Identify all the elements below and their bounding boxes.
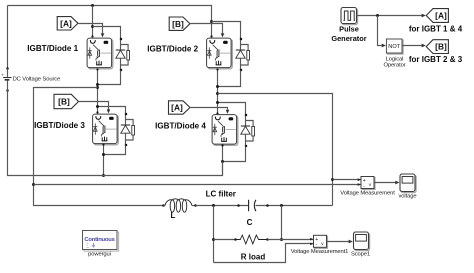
wire: jog from right leg to diode D4 top [218,103,246,115]
svg-text:voltage: voltage [399,194,417,200]
DC Voltage Source battery [1,67,60,92]
svg-text:[B]: [B] [435,42,447,52]
wire: IGBT4 emitter down to bottom rail [222,145,224,176]
svg-text:for IGBT 1 & 4: for IGBT 1 & 4 [409,25,463,34]
From tag [B] for IGBT2 gate [169,17,190,30]
node: junction on top rail above IGBT1 [91,4,94,7]
svg-text:[A]: [A] [60,18,72,28]
wire: NOT output to Goto B [403,45,422,47]
node: junction on IGBT1 collector [91,25,94,28]
svg-text:Pulse: Pulse [339,25,359,34]
wire: jog from IGBT2 collector to diode D2 top [212,22,241,39]
scope block voltage [400,174,416,193]
port dot: IGBT1 C port [91,35,93,37]
svg-text:IGBT/Diode 3: IGBT/Diode 3 [34,121,85,130]
port dot: IGBT2 C port [210,35,212,37]
diode D1 with snubber [116,38,130,72]
wire: diode D1 bottom jog to emitter line [98,71,121,85]
From tag [A] for IGBT1 gate [57,17,78,30]
arrowhead into VM minus [358,183,361,186]
wire: branch down to NOT operator [378,16,382,46]
wire: node A going left and down to LC filter [34,88,164,206]
node: junction main line to R branch left [212,204,215,207]
svg-text:+: + [1,73,4,78]
wire: [A] to IGBT4 gate [191,108,228,110]
diode D3 with snubber [121,113,135,147]
transistor block IGBT/Diode 3 [93,114,119,145]
node: junction R branch left [212,238,215,241]
wire: IGBT1 emitter down to IGBT3 collector [97,69,99,113]
Voltage Measurement1 block [314,235,328,248]
node: junction main line to R branch right [280,204,283,207]
node A junction on left leg [96,86,99,89]
scope block Scope1 [354,232,370,251]
wire: R load bottom loop to VM1 [214,244,314,263]
wire: bottom DC rail from battery to IGBT4 emitter [8,81,223,176]
svg-text:R load: R load [241,253,266,262]
svg-text:[B]: [B] [172,19,184,29]
wire: [A] to IGBT1 gate [79,24,103,34]
svg-text:Voltage Measurement1: Voltage Measurement1 [291,249,349,255]
svg-text:IGBT/Diode 4: IGBT/Diode 4 [155,121,206,130]
svg-text:IGBT/Diode 2: IGBT/Diode 2 [147,45,198,54]
node B junction on right leg [216,92,219,95]
diode D4 with snubber [241,114,255,148]
wire: left rail of R load branch [213,206,215,263]
node: junction node B wire to VM plus input [331,178,334,181]
arrowhead into VM1 bottom [310,243,313,246]
svg-text:LC filter: LC filter [206,189,236,198]
wire: VM to voltage scope [375,182,396,184]
svg-text:[A]: [A] [435,11,447,21]
resistor R load [214,235,314,261]
diode D2 with snubber [236,38,250,72]
capacitor C [237,200,269,227]
wire: IGBT3 emitter down to bottom rail [103,145,105,176]
Goto tag [A] [426,9,448,23]
wire: [B] to IGBT2 gate [191,24,223,34]
Pulse Generator block [331,8,366,43]
wire: diode D4 bottom jog to emitter [223,147,246,162]
wire: [B] to IGBT3 gate [79,102,109,110]
Goto tag [B] [426,40,448,54]
wire: node A measurement line to VM minus input [34,184,361,186]
node: junction on pulse generator output [376,14,379,17]
wire: node B going right and down to voltage measurement [218,94,333,206]
wire: main LC filter line [196,205,249,207]
wire: VM1 to Scope1 [327,241,349,243]
Voltage Measurement block [361,177,375,190]
svg-text:IGBT/Diode 1: IGBT/Diode 1 [27,44,78,53]
wire: jog from IGBT1 collector to diode D1 top [93,27,121,39]
svg-text:Voltage Measurement: Voltage Measurement [340,190,395,196]
wire: diode D3 bottom jog to emitter [104,146,126,155]
node: junction R branch right [280,238,283,241]
From tag [A] for IGBT4 gate [169,101,191,114]
svg-text:[A]: [A] [171,103,183,113]
wire: node B wire to VM plus input [333,179,361,181]
inductor L [162,199,197,220]
transistor block IGBT/Diode 2 [207,38,233,69]
wire: top DC rail from left corner to IGBT2 collector drop [8,6,212,37]
svg-text:DC Voltage Source: DC Voltage Source [13,77,61,83]
wire: jog from left leg to diode D3 top [98,107,126,114]
svg-text:L: L [171,211,176,220]
arrowhead into VM1 top [310,238,313,241]
wire: left DC rail down to battery [7,6,9,69]
logical operator NOT block [383,39,405,69]
node: junction node A to voltage measurement line [32,183,35,186]
svg-text:Generator: Generator [331,34,366,43]
wire: IGBT2 emitter down to IGBT4 collector [217,69,219,114]
svg-text:powergui: powergui [88,252,111,258]
wire: right rail of R load branch [281,206,283,240]
wire: pulse generator output to Goto A [357,15,422,17]
svg-text:for IGBT 2 & 3: for IGBT 2 & 3 [409,55,463,64]
wire: collector drop into IGBT1 [92,6,94,37]
arrowhead into VM plus [358,178,361,181]
transistor block IGBT/Diode 1 [87,38,113,69]
transistor block IGBT/Diode 4 [212,115,238,146]
From tag [B] for IGBT3 gate [54,94,79,108]
svg-text:Operator: Operator [383,63,405,69]
svg-text:Continuous: Continuous [84,237,115,243]
powergui block [83,231,119,258]
svg-text:[B]: [B] [58,97,70,107]
svg-text:NOT: NOT [388,44,400,50]
node: junction on IGBT2 collector [210,20,213,23]
svg-text:C: C [247,218,253,227]
svg-text:Scope1: Scope1 [351,252,370,258]
node: emitter3 junction on bottom rail [102,174,105,177]
wire: diode D2 bottom jog to emitter line [218,71,241,87]
